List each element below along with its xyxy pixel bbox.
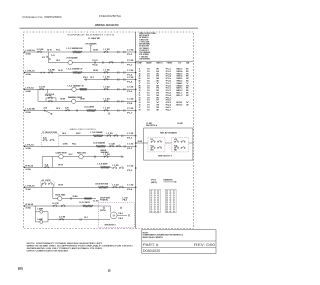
resistor LF element coil [73, 71, 83, 73]
svg-text:3-6: 3-6 [65, 108, 69, 110]
svg-text:P3-2: P3-2 [166, 100, 171, 102]
svg-text:18: 18 [147, 73, 150, 75]
svg-text:5: 5 [139, 78, 141, 80]
resistor broil coil [96, 145, 106, 147]
pilot switch link A-B [47, 52, 49, 63]
svg-text:P13: P13 [151, 180, 156, 182]
surface element E2 [72, 87, 76, 91]
svg-text:18: 18 [147, 109, 150, 111]
svg-text:17: 17 [139, 107, 141, 109]
svg-text:MAIN OVEN CONTROL: MAIN OVEN CONTROL [70, 128, 97, 131]
svg-text:WIRING DIAGRAM: WIRING DIAGRAM [95, 23, 119, 27]
svg-text:8 IN 2400W: 8 IN 2400W [67, 58, 79, 60]
wire row C: left front surface element [24, 72, 136, 74]
svg-text:L1 30: L1 30 [104, 49, 110, 51]
svg-text:SW4-1: SW4-1 [176, 83, 182, 85]
risers to branch [41, 157, 43, 168]
svg-text:CONV MTR: CONV MTR [56, 153, 68, 155]
svg-text:18: 18 [147, 69, 150, 71]
wire row F: warmer element with parallel branch [38, 100, 136, 102]
svg-text:7: 7 [139, 83, 141, 85]
transfer contact [44, 110, 45, 111]
svg-text:P1-6: P1-6 [127, 103, 132, 105]
svg-text:P1-8: P1-8 [166, 85, 171, 87]
svg-text:16: 16 [147, 90, 150, 92]
svg-text:L1 30: L1 30 [104, 154, 110, 156]
svg-text:14: 14 [139, 100, 141, 102]
svg-text:16 W: 16 W [80, 99, 85, 101]
svg-text:LOCK MTR 6W: LOCK MTR 6W [95, 183, 109, 185]
svg-text:RF DRAWER: RF DRAWER [86, 43, 98, 46]
svg-text:BRL-2: BRL-2 [176, 95, 182, 97]
svg-text:12: 12 [139, 95, 141, 97]
svg-text:18: 18 [147, 81, 150, 83]
svg-text:P1-7: P1-7 [127, 112, 132, 114]
svg-text:5572: 5572 [18, 267, 23, 271]
svg-text:MTR-2: MTR-2 [176, 105, 182, 107]
svg-text:18: 18 [147, 107, 150, 109]
svg-text:K1: K1 [151, 139, 154, 141]
svg-text:SEE NOTE 3: SEE NOTE 3 [105, 225, 116, 227]
svg-text:SURFACE ELEMENT CKTS: SURFACE ELEMENT CKTS [67, 33, 115, 36]
svg-text:K2: K2 [151, 145, 154, 147]
svg-text:P1-2: P1-2 [166, 71, 171, 73]
svg-text:2-6: 2-6 [44, 108, 48, 110]
relay box internal wires [165, 142, 171, 144]
resistor oven light [87, 109, 96, 111]
second motor circle [79, 155, 83, 159]
svg-text:P3-3: P3-3 [166, 102, 171, 104]
svg-text:P2-3: P2-3 [127, 170, 132, 172]
part number box [142, 230, 216, 254]
motor M circle [110, 212, 117, 219]
wire row M: latch motor feed [24, 205, 98, 207]
svg-text:L2 30: L2 30 [127, 108, 133, 110]
svg-text:N W-16: N W-16 [26, 165, 34, 167]
wire row B: element circle row [48, 62, 68, 64]
svg-text:L2 30: L2 30 [127, 165, 133, 167]
svg-text:16: 16 [147, 93, 150, 95]
svg-text:P3-4: P3-4 [166, 105, 171, 107]
fan motor circle [58, 196, 62, 200]
svg-text:P1-4: P1-4 [166, 76, 171, 78]
svg-text:SW1-2: SW1-2 [176, 69, 182, 71]
wire to relay board [136, 142, 148, 144]
svg-text:P2-2: P2-2 [127, 148, 132, 150]
svg-text:18: 18 [147, 97, 150, 99]
svg-text:P1-3: P1-3 [127, 74, 132, 76]
wire row D: short row to bus [84, 79, 136, 81]
svg-text:L2 30: L2 30 [127, 87, 133, 89]
jog down to bus [110, 166, 112, 169]
svg-text:16: 16 [139, 105, 141, 107]
connector grid P14 [165, 189, 176, 212]
resistor lock motor [98, 186, 108, 188]
lamp branch verticals [35, 206, 37, 222]
svg-text:SW2-4: SW2-4 [176, 76, 182, 78]
svg-text:L2 30: L2 30 [104, 77, 110, 79]
svg-text:P4-1: P4-1 [166, 107, 171, 109]
svg-text:L1 30: L1 30 [104, 99, 110, 101]
svg-text:P2-1: P2-1 [127, 138, 132, 140]
svg-text:SEE NOTE 2: SEE NOTE 2 [158, 155, 172, 157]
svg-text:P2-3: P2-3 [93, 60, 98, 62]
svg-text:FROM: FROM [167, 63, 173, 65]
lamp circle 2 [40, 220, 43, 223]
dashed motor sub-box [98, 203, 134, 228]
svg-text:NOTE:: NOTE: [143, 232, 149, 234]
svg-text:16: 16 [147, 76, 150, 78]
svg-text:L1 BK-14: L1 BK-14 [26, 71, 35, 73]
switch contacts [41, 72, 42, 73]
inner dashed relay box left [148, 138, 165, 152]
svg-text:P1-7: P1-7 [166, 83, 171, 85]
svg-text:REV: D00: REV: D00 [194, 243, 215, 247]
svg-text:8: 8 [139, 85, 141, 87]
svg-text:L1 30: L1 30 [104, 70, 110, 72]
resistor RR element coil [73, 51, 83, 53]
svg-text:18: 18 [147, 83, 150, 85]
svg-text:3-4: 3-4 [45, 165, 49, 167]
svg-text:P1-5: P1-5 [166, 78, 171, 80]
svg-text:P1: P1 [42, 57, 45, 59]
svg-text:10: 10 [108, 268, 111, 272]
svg-text:L2-5 40W: L2-5 40W [84, 107, 95, 109]
svg-text:P4-2: P4-2 [76, 133, 81, 135]
svg-text:L2 30: L2 30 [127, 77, 133, 79]
svg-text:L1 30: L1 30 [127, 144, 133, 146]
svg-text:P2-4: P2-4 [166, 95, 171, 97]
svg-text:CHECK CONNECTORS FOR SEATIN: CHECK CONNECTORS FOR SEATING. [27, 250, 70, 253]
svg-text:L1 30: L1 30 [104, 108, 110, 110]
svg-text:P9-2: P9-2 [119, 218, 124, 220]
wire row A: right rear surface element [24, 51, 136, 53]
wire row E: left rear element [24, 88, 136, 90]
svg-text:6-1 W: 6-1 W [53, 203, 60, 205]
svg-text:N W: N W [178, 123, 184, 125]
part box divider 2 [142, 246, 216, 248]
sub switch below [47, 89, 49, 93]
svg-text:L2 30: L2 30 [113, 165, 119, 167]
svg-text:4: 4 [139, 76, 141, 78]
svg-text:P2-3: P2-3 [166, 93, 171, 95]
relay board solid box [144, 128, 193, 160]
svg-text:P4-1: P4-1 [72, 144, 77, 146]
svg-text:10: 10 [139, 90, 141, 92]
svg-text:P9 (BLK): P9 (BLK) [100, 200, 109, 202]
svg-text:BRL-1: BRL-1 [176, 93, 182, 95]
wire row J: oven lamp main [24, 166, 110, 168]
resistor bake coil [93, 135, 103, 137]
svg-text:P1-4: P1-4 [127, 81, 132, 83]
svg-text:WARMER 100W: WARMER 100W [68, 96, 82, 99]
svg-text:L1 30: L1 30 [107, 133, 113, 135]
svg-text:L1-20 BK: L1-20 BK [26, 109, 37, 111]
right vertical bus N [135, 32, 137, 228]
svg-text:L2 30: L2 30 [127, 60, 133, 62]
svg-text:(BLK): (BLK) [151, 182, 157, 184]
relay contacts left [151, 141, 152, 142]
svg-text:16: 16 [147, 88, 150, 90]
svg-text:L1 30: L1 30 [113, 185, 119, 187]
convection motor circle [59, 155, 63, 159]
svg-text:1: 1 [139, 69, 141, 71]
svg-text:FFED3025PSA: FFED3025PSA [99, 14, 122, 18]
svg-text:L1-1 3000W RR: L1-1 3000W RR [67, 48, 84, 50]
wire row H1: bake element top [59, 135, 136, 137]
svg-text:Publication No. 5995526860: Publication No. 5995526860 [23, 15, 62, 19]
svg-text:15: 15 [139, 102, 141, 104]
svg-text:L1 30: L1 30 [127, 133, 133, 135]
svg-text:P3-1: P3-1 [83, 77, 88, 79]
svg-text:3: 3 [139, 73, 141, 75]
svg-text:NC: NC [174, 150, 177, 152]
svg-text:L1 30: L1 30 [109, 144, 115, 146]
svg-text:18: 18 [147, 100, 150, 102]
svg-text:18: 18 [147, 95, 150, 97]
parallel contact branch [46, 97, 56, 99]
svg-text:SW4-2: SW4-2 [176, 85, 182, 87]
svg-text:L1 30: L1 30 [123, 197, 128, 199]
svg-text:K3: K3 [174, 139, 177, 141]
warmer element circle [72, 99, 76, 103]
svg-text:D0804020: D0804020 [143, 249, 161, 253]
svg-text:P2-1: P2-1 [56, 49, 61, 51]
wire row J branch: convection motor [42, 156, 123, 158]
wiring table top rule [136, 60, 194, 62]
svg-text:L2-3 1800W LR: L2-3 1800W LR [68, 85, 85, 87]
wire row G: oven vent row [24, 110, 136, 112]
svg-text:P9-3: P9-3 [123, 200, 128, 202]
svg-text:L1 30: L1 30 [93, 200, 99, 202]
surface element E1 [68, 60, 72, 64]
svg-text:P2-1: P2-1 [166, 88, 171, 90]
svg-text:SW1-4: SW1-4 [176, 71, 182, 73]
svg-text:L2 R-14: L2 R-14 [26, 144, 34, 146]
svg-text:N W-16: N W-16 [26, 204, 34, 206]
stub RF drawer [90, 46, 92, 52]
svg-text:SW3-1: SW3-1 [176, 78, 182, 80]
svg-text:18: 18 [147, 85, 150, 87]
svg-text:4-6: 4-6 [43, 138, 47, 140]
resistor [83, 205, 94, 207]
svg-text:18: 18 [147, 71, 150, 73]
svg-text:9: 9 [139, 88, 141, 90]
connector grid P13 [150, 189, 161, 212]
svg-text:L2-6 40W: L2-6 40W [98, 163, 109, 165]
contact cluster in dashed box [41, 182, 55, 188]
svg-text:P1-6: P1-6 [166, 81, 171, 83]
svg-text:P3-1: P3-1 [166, 97, 171, 99]
svg-text:P2-4: P2-4 [93, 64, 98, 66]
svg-text:13: 13 [139, 97, 141, 99]
svg-text:L1 30: L1 30 [127, 185, 133, 187]
inner dashed relay box right [171, 138, 188, 152]
svg-text:18: 18 [147, 105, 150, 107]
wire row K branch: cooling fan [53, 198, 96, 200]
resistor [100, 166, 110, 168]
svg-text:SW2-2: SW2-2 [176, 73, 182, 75]
svg-text:P2-2: P2-2 [166, 90, 171, 92]
svg-text:L1 BK-16: L1 BK-16 [26, 185, 35, 187]
svg-text:P1-3: P1-3 [166, 73, 171, 75]
svg-text:P2-4: P2-4 [127, 189, 132, 191]
svg-text:K4: K4 [174, 145, 177, 147]
svg-text:L2 30: L2 30 [104, 87, 110, 89]
svg-text:2: 2 [139, 71, 141, 73]
svg-text:16 T: 16 T [84, 217, 88, 219]
resistor coil [80, 88, 88, 90]
svg-text:BROIL: BROIL [101, 150, 107, 152]
relay contacts right [174, 141, 175, 142]
svg-text:18: 18 [139, 109, 141, 111]
svg-text:16 W: 16 W [138, 141, 143, 143]
svg-text:P1-1: P1-1 [166, 69, 171, 71]
svg-text:L1 30: L1 30 [127, 70, 133, 72]
wire row K: lock motor [24, 186, 136, 188]
svg-text:6: 6 [139, 81, 141, 83]
svg-text:L1 30: L1 30 [127, 49, 133, 51]
svg-text:L1-8 2500W: L1-8 2500W [91, 132, 104, 134]
svg-text:L1-2 1200W LF: L1-2 1200W LF [67, 69, 83, 71]
main schematic dashed border [24, 32, 194, 228]
svg-text:L1-12 MTR: L1-12 MTR [79, 202, 91, 204]
svg-text:11: 11 [139, 93, 141, 95]
svg-text:L1 BK-14: L1 BK-14 [26, 50, 35, 52]
svg-text:MTR-1: MTR-1 [176, 102, 182, 104]
svg-text:4-1 LOCK: 4-1 LOCK [42, 180, 52, 182]
svg-text:M: M [113, 215, 115, 218]
header rule [20, 27, 199, 29]
svg-text:P1-2: P1-2 [127, 64, 132, 66]
svg-text:L2-9 3400W: L2-9 3400W [93, 142, 106, 144]
svg-text:P1-5: P1-5 [127, 91, 132, 93]
svg-text:P1-1: P1-1 [127, 54, 132, 56]
svg-text:SEE NOTE 4: SEE NOTE 4 [146, 125, 157, 127]
svg-text:RELAY BOARD: RELAY BOARD [160, 131, 178, 134]
svg-text:5-2 W: 5-2 W [59, 217, 66, 219]
svg-text:16: 16 [147, 78, 150, 80]
svg-text:L1 30: L1 30 [127, 99, 133, 101]
svg-text:GN GREEN: GN GREEN [139, 58, 150, 60]
wire row H2: broil element [24, 145, 136, 147]
svg-text:DOOR MTR: DOOR MTR [100, 197, 111, 199]
svg-text:SW3-2: SW3-2 [176, 81, 182, 83]
svg-text:18: 18 [147, 102, 150, 104]
part box divider [142, 240, 216, 242]
wire row N: lower latch wire [48, 219, 98, 221]
svg-text:P4-2: P4-2 [166, 109, 171, 111]
svg-text:1-3: 1-3 [51, 55, 55, 57]
svg-text:PART #: PART # [143, 243, 159, 247]
svg-text:P9-1: P9-1 [119, 213, 124, 215]
lamp circle 1 [40, 210, 43, 213]
svg-text:1-6 W: 1-6 W [45, 95, 53, 97]
svg-text:LINE: LINE [137, 63, 142, 65]
svg-text:L1 240V BK: L1 240V BK [88, 38, 101, 40]
svg-text:L2 R-14: L2 R-14 [26, 87, 34, 89]
